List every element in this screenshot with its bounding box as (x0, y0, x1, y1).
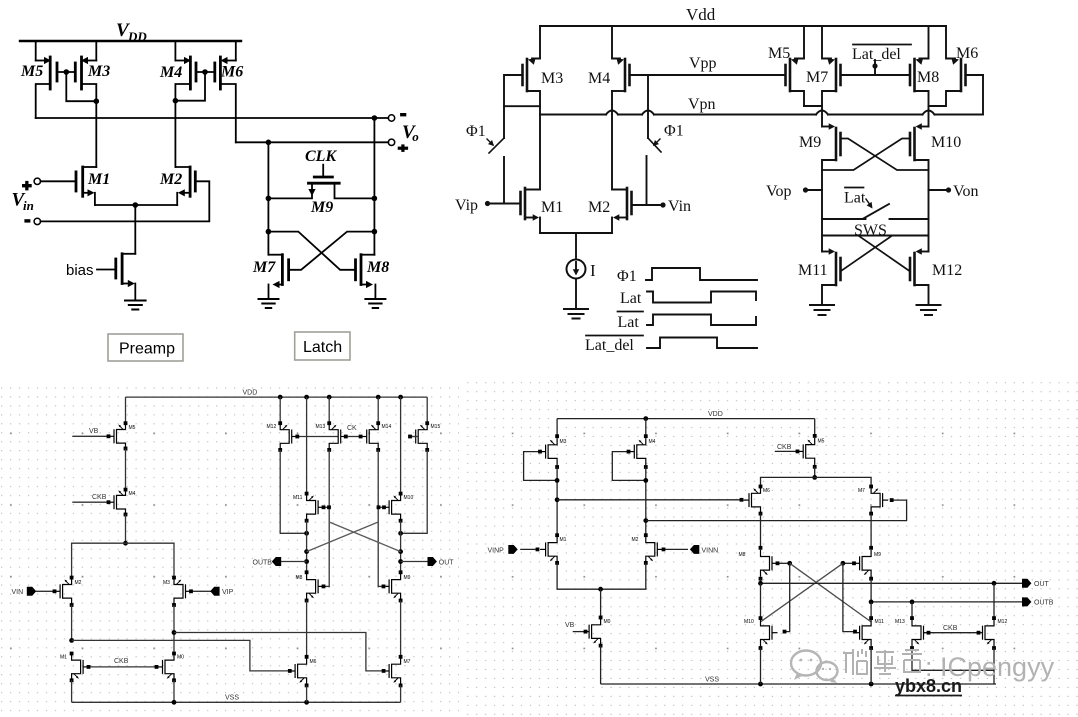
transistor M15 (410, 397, 440, 452)
wire M5-M4 (125, 449, 127, 490)
wire M15 gate (408, 435, 418, 439)
wire M12 gate to M13 (295, 435, 338, 439)
transistor M5 (798, 419, 825, 469)
svg-text:M9: M9 (404, 575, 411, 581)
wire CKB left (72, 494, 110, 504)
transistor M6 (744, 485, 771, 516)
wire VDD to M5 (125, 397, 127, 423)
transistor M11 (293, 397, 324, 522)
node Vop (766, 183, 822, 200)
svg-text:M8: M8 (739, 552, 746, 558)
wire M10 gate tap (377, 505, 386, 509)
ground (current source) (564, 309, 588, 319)
switch phi1 right (647, 75, 684, 205)
wire M3 drain down (172, 605, 177, 654)
svg-text:M1: M1 (560, 537, 567, 543)
wire tail node (95, 202, 177, 254)
wire cross couple diagonals (761, 563, 872, 622)
wire Vpn (540, 75, 983, 115)
wire M4-M6 gate link and diode tie (173, 69, 215, 103)
svg-text:CKB: CKB (943, 625, 958, 632)
wire M2 gate to minus input (34, 181, 209, 224)
svg-text:M0: M0 (604, 619, 611, 625)
timing waveform phi1 (617, 268, 757, 285)
transistor bias (66, 254, 135, 300)
svg-text:M13: M13 (895, 619, 905, 625)
transistor M13 (895, 602, 929, 650)
transistor M1 (521, 115, 564, 234)
transistor M7 (858, 485, 888, 516)
svg-text:M5: M5 (818, 439, 825, 445)
wire cross couple diagonals (307, 522, 401, 552)
svg-text:Lat: Lat (620, 290, 642, 307)
svg-text:M6: M6 (956, 45, 978, 62)
wire M3 gate-drain tie (504, 105, 540, 107)
wire M7-M8 gate link (841, 74, 911, 76)
watermark wechat icon (791, 651, 838, 684)
switch phi1 left (466, 123, 504, 204)
wire M9 gate tap (378, 585, 386, 589)
svg-text:Lat: Lat (844, 190, 866, 207)
svg-text:M13: M13 (316, 424, 326, 430)
wire M5-M7 drain link (804, 105, 822, 107)
transistor M3 (75, 41, 110, 167)
port VINN (662, 545, 719, 555)
svg-text:M1: M1 (87, 171, 110, 188)
node Vo label (398, 113, 420, 152)
wire M2 drain down (69, 605, 74, 643)
svg-text:Φ1: Φ1 (466, 123, 486, 140)
ground (bias) (125, 301, 146, 310)
wire cross-couple right to M7 gate (289, 232, 375, 270)
wire M13 column down (328, 450, 330, 588)
svg-text:M1: M1 (60, 655, 67, 661)
wire CKB bottom (927, 625, 981, 635)
port OUT (1022, 579, 1050, 588)
svg-text:VIN: VIN (12, 589, 24, 596)
wire output minus (36, 115, 395, 121)
svg-text:M11: M11 (875, 619, 885, 625)
svg-text:M9: M9 (310, 199, 333, 216)
svg-text:M3: M3 (87, 63, 110, 80)
wire A to M6 gate (72, 640, 292, 672)
wire VB (565, 622, 587, 633)
transistor M7 (384, 655, 411, 687)
transistor M8 (356, 255, 390, 299)
watermark ybx8.cn (895, 676, 962, 696)
svg-text:Vdd: Vdd (686, 5, 716, 24)
svg-text:VSS: VSS (705, 677, 719, 684)
grid background bottom-right schematic (461, 381, 1078, 717)
port VIP (189, 587, 234, 596)
transistor M3 (163, 576, 191, 607)
svg-text:M1: M1 (541, 199, 563, 216)
timing waveform Lat_del_bar (585, 336, 757, 355)
svg-text:Φ1: Φ1 (664, 123, 684, 140)
svg-text:Vip: Vip (455, 197, 478, 214)
transistor M14 (361, 397, 391, 452)
wire M6 source to VSS (306, 685, 308, 702)
grid background bottom-left schematic (0, 381, 459, 717)
transistor M11 (798, 248, 841, 305)
svg-text:M4: M4 (159, 64, 182, 81)
ground (M11) (810, 305, 834, 315)
svg-text:M2: M2 (159, 171, 182, 188)
svg-text:M4: M4 (588, 70, 610, 87)
wire CK (344, 425, 363, 438)
transistor M1 (60, 652, 89, 683)
svg-text:VB: VB (89, 428, 99, 435)
transistor M8 (910, 26, 939, 127)
wire M13 source link (912, 648, 994, 670)
transistor M5 (768, 26, 804, 106)
timing waveform Lat (620, 290, 756, 307)
svg-text:CKB: CKB (777, 444, 792, 451)
svg-text:Vpp: Vpp (689, 55, 717, 72)
svg-text:VIP: VIP (222, 589, 234, 596)
wire net1 to M6 gate (557, 498, 743, 502)
wire M9 gate tap (841, 561, 856, 566)
wire M9 to M7 (400, 601, 402, 657)
transistor M2 (588, 91, 632, 233)
wire Vpp (648, 55, 786, 75)
svg-text:M6: M6 (763, 488, 770, 494)
svg-text:bias: bias (66, 262, 94, 279)
wire Vdd rail (540, 25, 946, 27)
wire M14 column down (377, 450, 379, 588)
transistor M0 (584, 589, 611, 647)
wire output plus (236, 139, 395, 145)
transistor M6 (290, 655, 317, 687)
transistor M10 (744, 583, 778, 650)
wire CKB link M1-M0 (87, 658, 159, 669)
wire M5 drain spreader (761, 467, 872, 487)
wire M9-M10 cross couple (822, 139, 929, 171)
svg-text:CK: CK (347, 425, 357, 432)
transistor M12 (977, 583, 1007, 650)
node Vin label (12, 181, 34, 223)
svg-text:OUTB: OUTB (253, 560, 273, 567)
wire OUTB (869, 579, 1022, 605)
svg-text:Lat_del: Lat_del (852, 46, 901, 63)
wire VDD rail (20, 40, 241, 42)
transistor M9 (268, 148, 374, 216)
svg-text:M6: M6 (220, 64, 243, 81)
wire VSS rail (72, 695, 401, 705)
svg-text:OUTB: OUTB (1034, 600, 1054, 607)
wire M8 gate tap (322, 585, 330, 589)
transistor M2 (159, 167, 195, 205)
svg-text:Lat_del: Lat_del (585, 337, 634, 354)
wire M15 drain to latch right (398, 450, 427, 536)
transistor M9 (854, 546, 881, 581)
port OUT (401, 557, 455, 567)
wire M5-M3 gate link and diode tie (57, 69, 99, 104)
transistor M2 (55, 576, 82, 607)
transistor M8 (739, 546, 778, 581)
svg-text:M2: M2 (588, 199, 610, 216)
transistor M8 (296, 570, 324, 602)
wire latch right branch (372, 118, 378, 255)
wire M11 gate tap (322, 505, 331, 509)
svg-text:M12: M12 (998, 619, 1008, 625)
svg-text:Preamp: Preamp (119, 341, 175, 358)
svg-text:M3: M3 (560, 439, 567, 445)
svg-text:M4: M4 (129, 491, 136, 497)
transistor M11 (854, 602, 884, 650)
wire M11 gate vertical (843, 563, 857, 633)
switch SWS with Lat_bar control (822, 188, 929, 240)
svg-text:M3: M3 (541, 70, 563, 87)
svg-text:VINP: VINP (488, 548, 505, 555)
svg-text:M11: M11 (293, 495, 303, 501)
transistor M9 (799, 123, 841, 251)
wire VDD rail (126, 390, 428, 400)
svg-text:CLK: CLK (305, 148, 337, 165)
wire diff pair source bar (72, 543, 174, 577)
wire latch right column (398, 521, 403, 573)
timing waveform Lat_bar (618, 312, 757, 332)
svg-text:VSS: VSS (225, 695, 239, 702)
svg-text:M8: M8 (917, 69, 939, 86)
svg-text:M6: M6 (310, 659, 317, 665)
svg-text:o: o (412, 129, 419, 144)
svg-text:M14: M14 (382, 424, 392, 430)
wire VDD rail (557, 411, 815, 421)
transistor M4 (159, 41, 196, 167)
svg-text:M7: M7 (806, 69, 828, 86)
wire CKB top (775, 444, 800, 453)
transistor M5 (109, 421, 136, 450)
Latch box (295, 332, 350, 360)
wire M1 source to VSS (71, 680, 73, 702)
svg-text:OUT: OUT (439, 560, 455, 567)
transistor M12 (267, 397, 298, 452)
wire M4 column down (643, 467, 648, 535)
wire M11 source to VSS (870, 648, 872, 684)
wire VSS rail (601, 677, 996, 687)
svg-text:VB: VB (565, 622, 575, 629)
wire M10 source to VSS (760, 648, 762, 684)
wire OUT (758, 579, 1022, 586)
svg-text:M11: M11 (798, 262, 828, 279)
transistor M4 (588, 26, 648, 91)
ground (M8) (365, 299, 385, 308)
wire M4 to tail node (123, 515, 128, 546)
transistor M3 (504, 26, 563, 138)
svg-text:Φ1: Φ1 (617, 268, 637, 285)
port OUTB (253, 557, 307, 567)
svg-text:M3: M3 (163, 580, 170, 586)
svg-text:M12: M12 (932, 262, 962, 279)
transistor M6 (929, 26, 984, 106)
wire B to M7 gate (174, 633, 386, 673)
svg-text:M4: M4 (649, 439, 656, 445)
transistor M7 (252, 255, 289, 299)
svg-text:Vop: Vop (766, 183, 792, 200)
transistor M0 (157, 652, 184, 683)
transistor M9 (384, 570, 411, 602)
wire M8 gate tap (776, 561, 793, 566)
svg-text:M0: M0 (177, 655, 184, 661)
wire latch left branch (266, 142, 272, 254)
svg-text:M2: M2 (75, 580, 82, 586)
svg-text:M5: M5 (20, 63, 43, 80)
svg-text:M7: M7 (404, 659, 411, 665)
Preamp box (108, 334, 183, 361)
svg-text:M5: M5 (768, 45, 790, 62)
wire cross-couple left to M8 gate (268, 232, 355, 270)
svg-text:M12: M12 (267, 424, 277, 430)
transistor M5 (20, 41, 57, 118)
svg-text:Von: Von (953, 183, 979, 200)
svg-text:Vpn: Vpn (688, 96, 716, 113)
node Vin (632, 198, 692, 215)
port VIN (12, 587, 57, 596)
svg-text:CKB: CKB (92, 494, 107, 501)
wire M10 gate vertical (783, 563, 790, 633)
transistor M10 (384, 397, 414, 522)
transistor M2 (632, 533, 663, 565)
port OUTB (1022, 597, 1054, 606)
wire M0 source to VSS (173, 680, 175, 702)
wire M11-M12 cross couple (841, 236, 910, 271)
transistor M10 (910, 123, 961, 251)
wire M0 to VSS (600, 646, 602, 684)
ground (M12) (917, 305, 941, 315)
wire net2 to M7 gate (646, 498, 907, 520)
svg-text:VDD: VDD (708, 411, 723, 418)
transistor M7 (806, 26, 841, 127)
svg-text:M5: M5 (129, 425, 136, 431)
ground (M7) (259, 299, 279, 308)
transistor M6 (215, 41, 243, 142)
svg-text:VDD: VDD (243, 390, 258, 397)
wire M8 to M6 (306, 601, 308, 657)
wire M4 gate loop (612, 450, 646, 481)
wire M3 column down (555, 467, 560, 535)
wire tail and current source I (540, 233, 612, 309)
wire M3 gate loop (524, 450, 558, 481)
svg-text:M8: M8 (366, 259, 389, 276)
svg-text:M8: M8 (296, 575, 303, 581)
transistor M4 (629, 419, 656, 469)
svg-text:ybx8.cn: ybx8.cn (895, 676, 962, 696)
svg-text:VINN: VINN (702, 548, 719, 555)
port VINP (488, 545, 540, 555)
wire M7 source to VSS (400, 685, 402, 702)
transistor M3 (540, 419, 567, 469)
svg-text:M10: M10 (744, 619, 754, 625)
svg-text:M9: M9 (799, 134, 821, 151)
svg-text:CKB: CKB (114, 658, 129, 665)
transistor M12 (910, 248, 962, 305)
svg-text:M7: M7 (252, 259, 276, 276)
transistor M13 (316, 397, 347, 452)
svg-text:I: I (590, 261, 596, 280)
svg-text:Vin: Vin (668, 198, 691, 215)
wire M6 column down (760, 514, 762, 548)
svg-text:M10: M10 (404, 495, 414, 501)
wire M12 drain to latch left (280, 450, 309, 536)
svg-text:M9: M9 (874, 552, 881, 558)
svg-text:Lat: Lat (618, 314, 640, 331)
watermark text weixinhao (843, 649, 922, 675)
svg-text:OUT: OUT (1034, 581, 1050, 588)
transistor M1 (540, 533, 567, 565)
svg-text:Latch: Latch (303, 339, 342, 356)
wire M12 source to VSS (993, 648, 995, 684)
node Lat_del tap (852, 45, 911, 76)
wire VB (72, 428, 110, 438)
node Vip (455, 197, 521, 214)
svg-text:M2: M2 (632, 537, 639, 543)
wire M7 column down (870, 514, 872, 548)
node Von (929, 183, 979, 200)
svg-text:in: in (23, 198, 34, 213)
svg-text:M10: M10 (931, 134, 961, 151)
wire latch left column (304, 521, 309, 573)
wire tail bar (557, 563, 646, 592)
transistor M1 (34, 167, 110, 205)
svg-text:M7: M7 (858, 488, 865, 494)
svg-text:M15: M15 (431, 424, 441, 430)
transistor M4 (109, 488, 136, 517)
